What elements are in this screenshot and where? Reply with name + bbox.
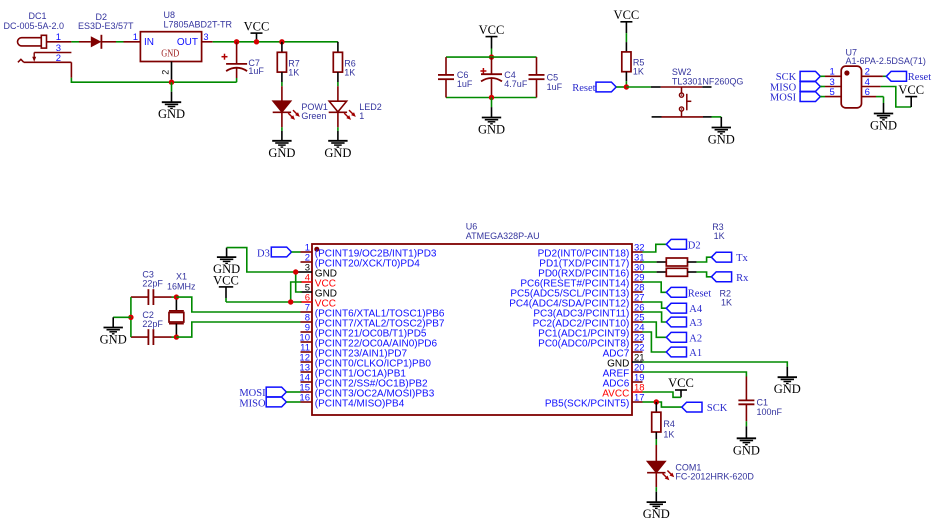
wire R4 to COM1 xyxy=(655,439,657,445)
ground GND flag below COM1 xyxy=(643,487,670,521)
wire U6 pin17 to SCK and R4 xyxy=(643,402,682,407)
resistor R7 1K xyxy=(277,42,300,82)
junction C7 on VCC rail xyxy=(234,39,239,44)
junction U6 pin17 node xyxy=(654,399,659,404)
power VCC flag left of U6 xyxy=(213,273,239,298)
svg-text:4.7uF: 4.7uF xyxy=(504,79,528,89)
svg-text:ATMEGA328P-AU: ATMEGA328P-AU xyxy=(466,231,540,241)
svg-text:1: 1 xyxy=(359,111,364,121)
svg-text:GND: GND xyxy=(268,146,295,160)
svg-text:GND: GND xyxy=(870,119,897,133)
power VCC flag above capacitor bank xyxy=(479,23,505,57)
wire R7 to POW1 xyxy=(281,82,283,86)
svg-text:ES3D-E3/57T: ES3D-E3/57T xyxy=(78,21,134,31)
svg-text:A1: A1 xyxy=(689,348,702,359)
regulator U8 L7805ABD2T-TR xyxy=(124,10,233,80)
U6 pin 30 PD0(RXD/PCINT16) xyxy=(538,263,644,280)
crystal X1 16MHz xyxy=(167,271,196,337)
wire R6 to LED2 xyxy=(337,82,339,86)
wire U6 pin25 to A2 flag xyxy=(643,322,667,337)
wire U6 pin27 to A4 flag xyxy=(643,302,667,308)
wire Reset node to SW2 xyxy=(626,86,651,88)
svg-text:Green: Green xyxy=(301,111,326,121)
svg-text:1K: 1K xyxy=(344,67,355,77)
junction Reset node xyxy=(624,84,629,89)
junction U8 GND at ground bus xyxy=(169,80,174,85)
U6 pin 24 PC1(ADC1/PCINT9) xyxy=(538,323,644,340)
wire SW2 to ground xyxy=(712,116,722,118)
svg-text:Tx: Tx xyxy=(736,253,748,264)
junction capacitor bank bottom xyxy=(489,95,494,100)
svg-text:L7805ABD2T-TR: L7805ABD2T-TR xyxy=(164,20,233,30)
U6 pin 11 (PCINT23/AIN1)PD7 xyxy=(300,343,407,360)
capacitor C7 1uF xyxy=(222,42,265,82)
svg-text:A1-6PA-2.5DSA(71): A1-6PA-2.5DSA(71) xyxy=(846,56,926,66)
svg-text:VCC: VCC xyxy=(614,8,640,22)
resistor R5 1K xyxy=(622,42,645,81)
svg-text:Reset: Reset xyxy=(688,288,711,299)
wire R2 to Rx flag xyxy=(697,272,712,277)
U6 pin 15 (PCINT3/OC2A/MOSI)PB3 xyxy=(299,383,434,400)
capacitor C6 1uF xyxy=(438,57,473,97)
svg-text:TL3301NF260QG: TL3301NF260QG xyxy=(672,77,744,87)
U6 pin 23 PC0(ADC0/PCINT8) xyxy=(538,333,644,350)
svg-text:R4: R4 xyxy=(663,419,675,429)
net flag MOSI to U7 pin5 xyxy=(770,92,822,104)
net flag A4 xyxy=(666,303,703,315)
svg-text:GND: GND xyxy=(643,507,670,521)
svg-text:SCK: SCK xyxy=(707,403,728,414)
svg-text:VCC: VCC xyxy=(244,19,270,33)
svg-text:X1: X1 xyxy=(176,271,187,281)
svg-text:IN: IN xyxy=(144,37,154,48)
svg-text:1K: 1K xyxy=(721,297,732,307)
svg-text:22pF: 22pF xyxy=(142,278,163,288)
svg-text:D3: D3 xyxy=(257,249,270,260)
svg-text:GND: GND xyxy=(733,443,760,457)
wire U6 pin29 to Reset flag xyxy=(643,282,667,292)
resistor R2 1K xyxy=(643,268,733,307)
ground GND flag below POW1 xyxy=(268,127,295,160)
net flag SCK to U7 pin1 xyxy=(776,71,822,83)
IC U6 ATMEGA328P-AU body xyxy=(312,222,632,415)
svg-text:GND: GND xyxy=(158,107,185,121)
ground GND flag below U7 xyxy=(870,103,897,133)
wire crystal to U6 pin7 xyxy=(176,297,300,312)
svg-text:1K: 1K xyxy=(714,231,725,241)
svg-text:U8: U8 xyxy=(164,10,176,20)
wire U7 pin6 to ground xyxy=(876,97,884,103)
svg-text:5: 5 xyxy=(830,87,835,98)
svg-text:DC1: DC1 xyxy=(29,11,47,21)
wire U6 pin20 AREF to C1 xyxy=(643,372,747,377)
U6 pin 17 PB5(SCK/PCINT5) xyxy=(545,393,645,410)
net flag SCK at U6 pin17 xyxy=(682,402,728,414)
U6 pin 13 (PCINT1/OC1A)PB1 xyxy=(299,363,406,380)
svg-text:GND: GND xyxy=(774,382,801,396)
wire U6 pin21 to ground xyxy=(643,362,788,367)
U6 pin 8 (PCINT7/XTAL2/TOSC2)PB7 xyxy=(301,313,445,330)
wire DC1 pin1 to D2 anode xyxy=(71,41,79,43)
net flag A1 xyxy=(666,347,702,359)
wire capacitor bank top rail xyxy=(446,56,537,58)
svg-text:MOSI: MOSI xyxy=(770,93,797,104)
svg-text:A4: A4 xyxy=(689,304,703,315)
capacitor C3 22pF xyxy=(131,270,177,305)
wire VCC flag to U6 pins 4 and 6 xyxy=(226,282,302,302)
ground GND flag at U6 pin21 xyxy=(774,367,801,397)
wire VCC to R5 xyxy=(625,33,627,42)
capacitor C5 1uF xyxy=(529,57,563,97)
svg-text:1uF: 1uF xyxy=(457,79,473,89)
svg-text:2: 2 xyxy=(161,70,171,75)
svg-text:C5: C5 xyxy=(547,72,559,82)
U6 pin 31 PD1(TXD/PCINT17) xyxy=(539,253,644,270)
svg-text:VCC: VCC xyxy=(479,23,505,37)
svg-text:A3: A3 xyxy=(689,318,702,329)
wire crystal to U6 pin8 xyxy=(176,322,300,337)
svg-text:OUT: OUT xyxy=(177,37,198,48)
svg-text:FC-2012HRK-620D: FC-2012HRK-620D xyxy=(675,471,754,481)
U6 pin 19 ADC6 xyxy=(603,373,645,390)
junction U6 pin6 VCC xyxy=(288,299,293,304)
wire D2 cathode to U8 IN xyxy=(116,41,124,43)
resistor R4 1K xyxy=(652,402,675,439)
wire capacitor bank bottom rail xyxy=(446,97,537,99)
wire U7 pin4 to VCC xyxy=(881,87,912,108)
U6 pin 5 GND xyxy=(301,283,338,300)
svg-text:100nF: 100nF xyxy=(757,407,783,417)
wire rail corner down to R6 xyxy=(337,42,339,53)
U6 pin 21 GND xyxy=(607,353,645,370)
svg-text:1: 1 xyxy=(133,32,138,43)
wire R3 to Tx flag xyxy=(697,257,712,262)
svg-text:VCC: VCC xyxy=(213,273,239,287)
U6 pin 20 AREF xyxy=(603,363,645,380)
svg-text:1K: 1K xyxy=(288,67,299,77)
svg-text:1uF: 1uF xyxy=(248,66,264,76)
wire U6 pin32 to D2 flag xyxy=(643,244,667,252)
power VCC flag at U6 pin18 AVCC xyxy=(668,376,694,397)
svg-text:A2: A2 xyxy=(689,333,702,344)
svg-text:VCC: VCC xyxy=(668,376,694,390)
wire U6 pin18 to VCC xyxy=(643,392,682,397)
svg-text:1: 1 xyxy=(56,32,61,43)
LED POW1 Green xyxy=(273,86,328,127)
junction U6 pin3 GND xyxy=(293,269,298,274)
net flag MISO to U7 pin3 xyxy=(770,82,822,94)
U6 pin 32 PD2(INT0/PCINT18) xyxy=(538,243,645,260)
U6 pin 26 PC3(ADC3/PCINT11) xyxy=(533,303,644,320)
U6 pin 7 (PCINT6/XTAL1/TOSC1)PB6 xyxy=(301,303,445,320)
net flag D3 to U6 pin1 xyxy=(257,247,300,259)
U6 pin 25 PC2(ADC2/PCINT10) xyxy=(533,313,645,330)
svg-text:GND: GND xyxy=(324,146,351,160)
capacitor C2 22pF xyxy=(131,310,177,345)
power VCC flag at U7 xyxy=(898,83,924,107)
U6 pin 3 GND xyxy=(301,263,338,280)
diode D2 ES3D-E3/57T xyxy=(78,12,134,49)
wire GND flag to U6 pins 3 and 5 xyxy=(227,248,302,292)
svg-text:16MHz: 16MHz xyxy=(167,281,196,291)
switch SW2 TL3301NF260QG xyxy=(651,67,744,117)
junction crystal top / U6 pin7 xyxy=(174,294,179,299)
svg-text:PB5(SCK/PCINT5): PB5(SCK/PCINT5) xyxy=(545,399,629,410)
U6 pin 14 (PCINT2/SS#/OC1B)PB2 xyxy=(299,373,428,390)
svg-text:GND: GND xyxy=(708,133,735,147)
U6 pin 22 ADC7 xyxy=(603,343,645,360)
ground GND flag below SW2 xyxy=(708,117,735,147)
resistor R3 1K xyxy=(643,222,725,266)
net flag A3 xyxy=(666,317,702,329)
net flag D2 at U6 pin32 xyxy=(666,239,700,251)
svg-text:VCC: VCC xyxy=(898,83,924,97)
wire ground bus from DC1 to C7 bottom xyxy=(71,62,236,82)
wire to crystal GND xyxy=(113,316,131,318)
svg-text:1K: 1K xyxy=(633,67,644,77)
power VCC flag above R5 xyxy=(614,8,640,33)
connector DC1 DC-005-5A-2.0 barrel jack xyxy=(4,11,72,64)
U6 pin 16 (PCINT4/MISO)PB4 xyxy=(299,393,404,410)
net flag A2 xyxy=(666,332,702,344)
capacitor C1 100nF xyxy=(738,377,782,427)
svg-text:1uF: 1uF xyxy=(547,82,563,92)
svg-text:GND: GND xyxy=(478,123,505,137)
svg-text:GND: GND xyxy=(100,333,127,347)
net flag Reset at U7 pin2 xyxy=(883,71,931,83)
svg-text:GND: GND xyxy=(161,48,179,60)
junction capacitor bank top xyxy=(489,54,494,59)
svg-text:Reset: Reset xyxy=(572,83,595,94)
ground GND flag left of crystal xyxy=(100,317,127,346)
wire U6 pin24 to A1 flag xyxy=(643,332,667,352)
svg-text:2: 2 xyxy=(56,53,61,64)
capacitor C4 4.7uF xyxy=(480,57,527,97)
wire crystal left vertical xyxy=(130,297,132,337)
net flag Reset (left) xyxy=(572,82,626,94)
net flag Reset at U6 pin29 xyxy=(666,287,711,299)
wire VCC rail from U8 OUT to R6 xyxy=(213,41,338,43)
junction crystal ground tap xyxy=(128,315,133,320)
net flag Rx xyxy=(711,272,749,284)
svg-text:MISO: MISO xyxy=(239,398,266,409)
U6 pin 27 PC4(ADC4/SDA/PCINT12) xyxy=(509,293,644,310)
ground GND flag below LED2 xyxy=(324,127,351,160)
wire R5 to Reset node xyxy=(625,81,627,87)
U6 pin 9 (PCINT21/OC0B/T1)PD5 xyxy=(301,323,427,340)
resistor R6 1K xyxy=(333,52,356,82)
U6 pin 29 PC6(RESET#/PCINT14) xyxy=(520,273,644,290)
svg-text:1K: 1K xyxy=(663,429,674,439)
U6 pin 18 AVCC xyxy=(602,383,644,400)
ground GND flag below capacitor bank xyxy=(478,98,505,137)
junction R7 on VCC rail xyxy=(279,39,284,44)
U6 pin 28 PC5(ADC5/SCL/PCINT13) xyxy=(510,283,644,300)
LED COM1 FC-2012HRK-620D xyxy=(647,445,754,487)
ground GND flag below C1 xyxy=(733,426,760,457)
U6 pin 12 (PCINT0/CLKO/ICP1)PB0 xyxy=(299,353,431,370)
power VCC flag on rail xyxy=(244,19,270,44)
junction crystal bottom / U6 pin8 xyxy=(174,334,179,339)
svg-text:(PCINT4/MISO)PB4: (PCINT4/MISO)PB4 xyxy=(315,399,405,410)
svg-text:16: 16 xyxy=(299,393,310,404)
U6 pin 6 VCC xyxy=(301,293,336,310)
svg-text:Rx: Rx xyxy=(736,273,749,284)
U6 pin 4 VCC xyxy=(301,273,336,290)
connector U7 A1-6PA-2.5DSA(71) xyxy=(820,47,926,107)
wire U6 pin26 to A3 flag xyxy=(643,312,667,322)
LED LED2 1 xyxy=(329,86,382,127)
net flag MOSI to U6 pin15 xyxy=(239,387,300,399)
ground GND flag left of U6 xyxy=(213,248,240,277)
U6 pin 10 (PCINT22/OC0A/AIN0)PD6 xyxy=(299,333,437,350)
U6 pin 1 (PCINT19/OC2B/INT1)PD3 xyxy=(301,243,437,260)
svg-text:22pF: 22pF xyxy=(142,319,163,329)
svg-text:DC-005-5A-2.0: DC-005-5A-2.0 xyxy=(4,21,65,31)
svg-text:Reset: Reset xyxy=(908,72,931,83)
net flag Tx xyxy=(711,252,748,264)
U6 pin 2 (PCINT20/XCK/T0)PD4 xyxy=(301,253,421,270)
net flag MISO to U6 pin16 xyxy=(239,397,300,409)
svg-text:3: 3 xyxy=(204,32,209,42)
ground GND flag below U8 xyxy=(158,82,185,121)
svg-text:D2: D2 xyxy=(688,240,701,251)
